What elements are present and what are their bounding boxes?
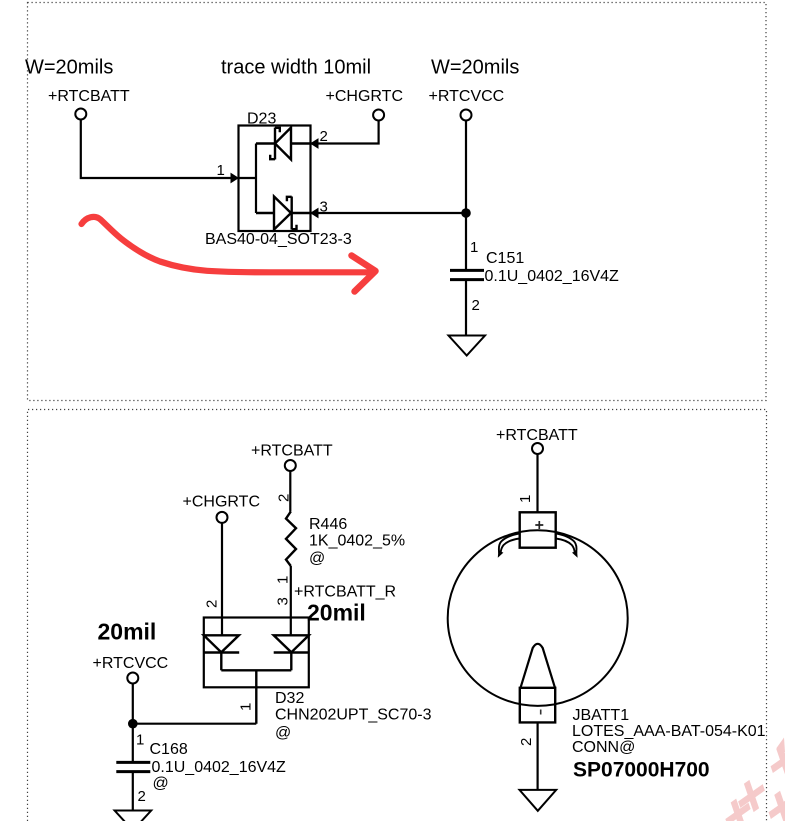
D32 right diode (down): [274, 635, 309, 670]
svg-text:20mil: 20mil: [307, 600, 366, 626]
svg-text:0.1U_0402_16V4Z: 0.1U_0402_16V4Z: [152, 759, 287, 776]
D23 lower schottky diode (anode left): [256, 197, 311, 230]
svg-text:@: @: [275, 725, 291, 742]
ground symbol (C168, clipped): [115, 811, 152, 821]
svg-text:+RTCVCC: +RTCVCC: [429, 88, 505, 105]
svg-text:+RTCBATT: +RTCBATT: [251, 443, 333, 460]
svg-text:2: 2: [203, 600, 220, 608]
battery clip right wing: [556, 533, 578, 557]
bottom dashed section border: [28, 410, 767, 821]
resistor R446: [286, 512, 296, 567]
wire +RTCBATT to R446: [289, 471, 291, 512]
svg-text:CONN@: CONN@: [572, 739, 635, 756]
wire R446 to D32 pin 3: [290, 566, 292, 635]
svg-text:3: 3: [275, 597, 292, 605]
pin arrow 1 (D23): [231, 173, 240, 184]
wire +RTCVCC down to C168: [132, 683, 134, 762]
svg-text:1: 1: [217, 162, 225, 179]
battery positive terminal box: [520, 512, 556, 547]
battery clip left wing: [498, 533, 520, 557]
svg-text:+CHGRTC: +CHGRTC: [183, 494, 261, 511]
svg-text:@: @: [153, 775, 169, 792]
svg-text:SP07000H700: SP07000H700: [573, 759, 710, 782]
wire +CHGRTC to D32 pin 2: [221, 523, 223, 636]
svg-text:W=20mils: W=20mils: [25, 57, 113, 79]
svg-text:+CHGRTC: +CHGRTC: [326, 88, 404, 105]
svg-text:20mil: 20mil: [98, 619, 157, 645]
battery negative cone: [521, 644, 556, 688]
svg-text:JBATT1: JBATT1: [573, 707, 630, 724]
D32 left diode (down): [204, 635, 239, 670]
svg-text:C168: C168: [150, 741, 188, 758]
terminal circle +RTCVCC (top): [461, 110, 472, 121]
terminal circle +RTCVCC (bottom): [127, 673, 138, 684]
terminal circle +RTCBATT (top): [75, 109, 86, 120]
svg-text:1: 1: [517, 495, 534, 503]
svg-text:W=20mils: W=20mils: [431, 57, 519, 79]
svg-text:1K_0402_5%: 1K_0402_5%: [309, 533, 405, 550]
svg-text:2: 2: [138, 788, 146, 805]
terminal circle +RTCBATT (bottom middle): [285, 460, 296, 471]
svg-text:1: 1: [136, 732, 144, 749]
svg-text:LOTES_AAA-BAT-054-K01: LOTES_AAA-BAT-054-K01: [572, 723, 766, 740]
wire battery to ground: [536, 722, 538, 790]
battery JBATT1 circle: [448, 530, 628, 706]
svg-text:1: 1: [275, 576, 292, 584]
terminal circle +CHGRTC (bottom): [217, 512, 228, 523]
svg-text:2: 2: [472, 297, 480, 314]
D32 common bus and pin1 tap: [221, 670, 291, 723]
D23 upper schottky diode (cathode left): [256, 128, 311, 160]
top dashed section border: [28, 3, 767, 401]
svg-text:+RTCVCC: +RTCVCC: [93, 655, 169, 672]
wire pin3 to junction: [311, 212, 467, 214]
wire C151 to ground: [465, 280, 467, 336]
D23 internal rail (pin1 common): [239, 144, 257, 214]
pin arrow 2 (D23): [310, 138, 319, 149]
svg-text:0.1U_0402_16V4Z: 0.1U_0402_16V4Z: [485, 268, 620, 285]
svg-text:C151: C151: [486, 250, 524, 267]
terminal circle +CHGRTC (top): [373, 110, 384, 121]
junction node (bottom): [128, 719, 138, 729]
plus mark: [535, 521, 543, 529]
ground symbol (JBATT1): [520, 790, 557, 811]
svg-text:D23: D23: [247, 111, 276, 128]
pin arrow 3 (D23): [310, 208, 319, 219]
svg-text:CHN202UPT_SC70-3: CHN202UPT_SC70-3: [275, 707, 432, 724]
svg-text:BAS40-04_SOT23-3: BAS40-04_SOT23-3: [205, 231, 352, 248]
svg-text:1: 1: [238, 703, 255, 711]
diode D32 body box: [204, 618, 309, 688]
watermark pink X cluster: [724, 738, 785, 821]
battery negative terminal box: [520, 688, 555, 723]
svg-text:+RTCBATT: +RTCBATT: [496, 427, 578, 444]
minus mark (rotated): [540, 710, 542, 715]
svg-text:2: 2: [518, 738, 535, 746]
terminal circle +RTCBATT (battery): [532, 443, 543, 454]
svg-text:2: 2: [276, 494, 293, 502]
svg-text:1: 1: [470, 239, 478, 256]
diode D23 body box: [239, 126, 311, 232]
wire D32 pin1 to +RTCVCC junction: [133, 723, 256, 725]
svg-text:+RTCBATT_R: +RTCBATT_R: [294, 584, 396, 601]
svg-text:+RTCBATT: +RTCBATT: [48, 88, 130, 105]
wire +RTCBATT to battery: [536, 454, 538, 513]
svg-text:trace width 10mil: trace width 10mil: [221, 57, 371, 79]
wire pin2 to +CHGRTC: [311, 120, 379, 143]
ground symbol (C151): [449, 336, 486, 356]
wire +RTCBATT down and right to D23 pin 1: [81, 119, 232, 178]
svg-text:D32: D32: [275, 690, 304, 707]
svg-text:@: @: [309, 550, 325, 567]
red annotation arrow: [82, 217, 376, 292]
junction node: [461, 208, 471, 218]
svg-text:R446: R446: [309, 516, 347, 533]
wire C168 to ground: [132, 772, 134, 811]
capacitor C168 plates: [116, 762, 150, 771]
wire +RTCVCC down to C151: [465, 120, 467, 270]
capacitor C151 plates: [450, 270, 484, 279]
